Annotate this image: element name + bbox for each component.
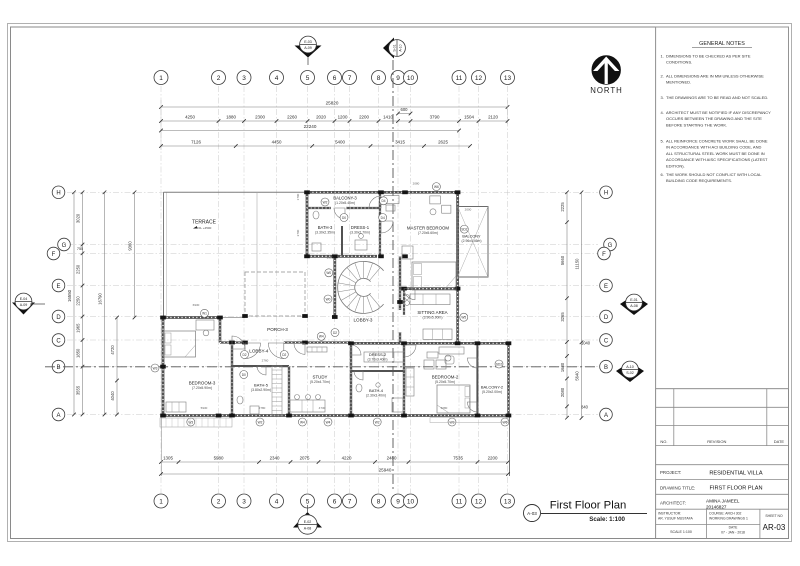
svg-text:ARCHITECT MUST BE NOTIFIED IF: ARCHITECT MUST BE NOTIFIED IF ANY DISCRE…	[666, 110, 771, 115]
tag circle W1	[201, 309, 209, 317]
grid bubble row H left	[52, 186, 65, 199]
elevation marker E-01/A-08 right	[620, 295, 648, 315]
elevation marker E-03/A-09 top	[295, 46, 322, 58]
svg-text:B: B	[604, 365, 608, 371]
door dress-2 to bath-4	[354, 371, 363, 380]
svg-text:DATE: DATE	[774, 439, 785, 444]
svg-text:E-04: E-04	[20, 297, 28, 301]
sitting area sofa set upper	[410, 294, 450, 305]
wall bedroom-3 / lobby-4 divider	[231, 345, 233, 416]
grid bubble column 9 top	[391, 71, 405, 85]
master bedroom bed	[412, 262, 456, 290]
svg-text:1305: 1305	[163, 455, 173, 460]
dimension line column segments row	[159, 119, 509, 123]
grid bubble column 8 bottom	[372, 494, 386, 508]
study desks and chairs	[290, 400, 325, 412]
svg-text:G: G	[62, 243, 67, 249]
svg-text:A: A	[604, 413, 608, 419]
section marker A-10/S-02 right	[616, 362, 644, 382]
svg-text:1504: 1504	[464, 114, 474, 119]
dimension line bottom segments	[159, 460, 510, 464]
door D4 balcony-3 to master bedroom	[369, 196, 381, 208]
svg-text:1: 1	[159, 75, 163, 82]
svg-text:2300: 2300	[255, 114, 265, 119]
dimension line right row segments	[565, 191, 569, 420]
grid bubble row D right	[600, 310, 613, 323]
svg-text:W2: W2	[375, 420, 380, 424]
title block bottom grid	[656, 509, 760, 538]
section marker S-01/A-10 top	[383, 38, 394, 59]
revision table grid	[656, 389, 789, 446]
svg-text:13: 13	[504, 499, 512, 506]
dimension line inner segments 7126/4450/5400/3415/2625	[159, 144, 472, 148]
svg-text:(5.20x2.00m): (5.20x2.00m)	[482, 390, 502, 394]
grid bubble row B right	[600, 360, 613, 373]
grid bubble column 6 bottom	[328, 494, 342, 508]
svg-text:7: 7	[348, 499, 352, 506]
svg-text:INSTRUCTOR:: INSTRUCTOR:	[658, 512, 681, 516]
svg-text:2075: 2075	[300, 455, 310, 460]
svg-text:5: 5	[306, 499, 310, 506]
svg-text:22240: 22240	[304, 124, 317, 129]
svg-text:BUILDING CODE REQUIREMENTS.: BUILDING CODE REQUIREMENTS.	[666, 178, 732, 183]
svg-text:STUDY: STUDY	[313, 375, 328, 380]
wall master bedroom right exterior	[456, 192, 459, 288]
svg-text:ARCHITECT:: ARCHITECT:	[660, 501, 686, 506]
svg-text:1880: 1880	[226, 114, 236, 119]
svg-text:DRESS-1: DRESS-1	[351, 225, 370, 230]
door lobby-3 to dress-2	[351, 345, 361, 355]
svg-text:6930: 6930	[193, 303, 200, 307]
svg-text:BALCONY-3: BALCONY-3	[333, 196, 357, 201]
wall master bedroom bottom	[404, 287, 458, 290]
bath-4 fixtures	[356, 384, 362, 392]
wall bedroom-3 right upper	[219, 318, 222, 343]
tag circle SD2	[495, 360, 503, 368]
svg-text:(3.80x2.90m): (3.80x2.90m)	[251, 388, 271, 392]
svg-text:4720: 4720	[110, 345, 115, 355]
title block left border	[655, 27, 657, 539]
svg-text:OCCURS BETWEEN THE DRAWING: OCCURS BETWEEN THE DRAWING AND THE SITE	[666, 116, 762, 121]
tag circle D0	[340, 214, 348, 222]
grid bubble row G left	[58, 238, 71, 251]
grid bubble column 4 top	[270, 71, 284, 85]
tag circle W3	[448, 418, 456, 426]
svg-text:(7.20x5.60m): (7.20x5.60m)	[418, 231, 438, 235]
grid bubble column 7 bottom	[343, 494, 357, 508]
svg-text:AMINA JAMEEL: AMINA JAMEEL	[706, 498, 740, 503]
wall lobby-3 right lower	[399, 332, 401, 343]
svg-text:FFL +4500: FFL +4500	[197, 226, 212, 230]
svg-text:7535: 7535	[453, 455, 463, 460]
svg-text:D: D	[56, 315, 61, 321]
svg-text:3415: 3415	[395, 139, 405, 144]
svg-text:W3: W3	[188, 420, 193, 424]
grid bubble column 12 bottom	[472, 494, 486, 508]
svg-text:C: C	[56, 338, 61, 344]
svg-text:2080: 2080	[560, 387, 565, 397]
svg-text:4: 4	[275, 75, 279, 82]
tag circle W4	[324, 418, 332, 426]
grid bubble column 13 bottom	[501, 494, 515, 508]
door D4 dress-1 to master bedroom	[381, 221, 393, 233]
svg-text:S-02: S-02	[626, 371, 634, 375]
svg-text:IN ACCORDANCE WITH ACI BUI: IN ACCORDANCE WITH ACI BUILDING CODE, AN…	[666, 145, 761, 150]
grid bubble column 4 bottom	[270, 494, 284, 508]
dimension line right 11150/5640	[580, 191, 584, 420]
svg-text:2225: 2225	[560, 202, 565, 212]
svg-text:25940: 25940	[379, 468, 392, 473]
svg-text:W4: W4	[326, 420, 331, 424]
wall bottom wing top (dress-2 to balcony-2)	[352, 342, 509, 345]
svg-text:D4: D4	[381, 199, 385, 203]
wall lobby-3 right upper	[399, 256, 401, 310]
svg-text:E-02: E-02	[304, 520, 312, 524]
grid bubble row D left	[52, 310, 65, 323]
svg-text:BATH-4: BATH-4	[369, 388, 384, 393]
grid bubble column 12 top	[472, 71, 486, 85]
svg-text:2625: 2625	[438, 139, 448, 144]
svg-text:2250: 2250	[76, 264, 81, 274]
wall sitting area right exterior	[456, 289, 459, 344]
svg-text:2: 2	[217, 75, 221, 82]
svg-text:6: 6	[333, 499, 337, 506]
svg-text:07 - JAN - 2018: 07 - JAN - 2018	[721, 531, 745, 535]
tag circle D0	[240, 371, 248, 379]
grid bubble column 9 bottom	[391, 494, 405, 508]
grid bubble column 10 top	[404, 71, 418, 85]
svg-text:5080: 5080	[441, 406, 448, 410]
wall dress-2 / bath-4 divider	[351, 370, 404, 372]
grid bubble row E right	[600, 279, 613, 292]
balcony-1 outline with cross bracing	[458, 207, 488, 278]
grid bubble column 3 bottom	[237, 494, 251, 508]
grid bubble row H right	[600, 186, 613, 199]
svg-text:3020: 3020	[76, 213, 81, 223]
svg-text:SCALE 1:100: SCALE 1:100	[670, 530, 692, 534]
general notes text	[661, 54, 772, 184]
grid bubble row A right	[600, 408, 613, 421]
wall study right / dress-2 left	[350, 343, 352, 415]
svg-text:D0: D0	[242, 373, 246, 377]
grid bubble column 7 top	[343, 71, 357, 85]
tag circle W4	[317, 332, 325, 340]
svg-text:E-03: E-03	[304, 40, 312, 44]
svg-text:EDITION).: EDITION).	[666, 163, 685, 168]
grid bubble column 1 bottom	[154, 494, 168, 508]
dimension line left 16790	[103, 191, 107, 417]
svg-text:(5.20x5.70m): (5.20x5.70m)	[435, 380, 455, 384]
svg-text:BATH-3: BATH-3	[318, 225, 333, 230]
wall bottom exterior	[163, 414, 509, 417]
bedroom-2 desk and chair	[439, 347, 464, 354]
svg-text:W5: W5	[461, 316, 466, 320]
interior small dimension labels	[193, 182, 472, 411]
svg-text:1950: 1950	[327, 256, 334, 260]
sitting area sofas lower	[423, 329, 452, 339]
svg-text:D4: D4	[381, 216, 385, 220]
svg-text:W2: W2	[323, 200, 328, 204]
svg-text:2780: 2780	[259, 406, 266, 410]
svg-text:1410: 1410	[383, 114, 393, 119]
wall left exterior bedroom-3	[162, 318, 165, 416]
svg-text:ACCORDANCE WITH AISC SPECIF: ACCORDANCE WITH AISC SPECIFICATIONS (LAT…	[666, 157, 768, 162]
svg-text:5660: 5660	[560, 255, 565, 265]
svg-text:4730: 4730	[319, 406, 326, 410]
svg-text:2200: 2200	[488, 455, 498, 460]
door D0 balcony-3 to bath-3	[334, 208, 345, 219]
tag circle W6	[501, 418, 509, 426]
svg-text:W2: W2	[258, 420, 263, 424]
svg-text:D0: D0	[342, 216, 346, 220]
grid bubble column 6 top	[328, 71, 342, 85]
structural columns (black)	[160, 190, 511, 417]
svg-text:(1.20x5.40m): (1.20x5.40m)	[335, 201, 355, 205]
svg-text:1: 1	[159, 499, 163, 506]
svg-text:First Floor Plan: First Floor Plan	[550, 500, 627, 512]
svg-text:2200: 2200	[359, 114, 369, 119]
north arrow symbol	[592, 56, 620, 84]
master bedroom desk and chair	[430, 196, 441, 204]
section cut line vertical S-01	[392, 60, 394, 490]
svg-text:AR. YUSUF MUSTAFA: AR. YUSUF MUSTAFA	[658, 516, 693, 520]
svg-text:LOBBY-3: LOBBY-3	[354, 318, 373, 323]
svg-text:(3.30x2.70m): (3.30x2.70m)	[350, 231, 370, 235]
tag circle D4	[379, 214, 387, 222]
svg-text:E-01: E-01	[630, 298, 638, 302]
svg-text:4040: 4040	[110, 391, 115, 401]
svg-text:BEDROOM-2: BEDROOM-2	[432, 375, 459, 380]
svg-text:11: 11	[456, 75, 463, 82]
svg-text:F: F	[52, 252, 56, 258]
grid bubble row E left	[52, 279, 65, 292]
svg-text:2000: 2000	[465, 208, 472, 212]
svg-text:1.: 1.	[661, 54, 664, 59]
svg-text:2340: 2340	[270, 455, 280, 460]
svg-text:MASTER BEDROOM: MASTER BEDROOM	[407, 226, 450, 231]
master bedroom tv unit	[402, 246, 413, 259]
grid bubble row C left	[52, 334, 65, 347]
door bedroom-2 to balcony-2 upper	[467, 358, 477, 368]
door lobby to bedroom-2	[404, 345, 416, 357]
svg-text:1700: 1700	[296, 193, 300, 200]
bedroom-3 bed	[164, 331, 196, 357]
step strip below bedroom-3	[160, 418, 232, 427]
svg-text:5400: 5400	[335, 139, 345, 144]
svg-text:TERRACE: TERRACE	[192, 220, 217, 226]
svg-text:W0: W0	[326, 271, 331, 275]
wall bath-3 dress-1 bottom	[307, 255, 377, 258]
bedroom-2 bed	[437, 385, 470, 413]
svg-text:(5.20x4.70m): (5.20x4.70m)	[310, 380, 330, 384]
svg-text:2120: 2120	[488, 114, 498, 119]
extension line left below bedroom-3	[161, 416, 163, 476]
svg-text:D2: D2	[282, 353, 286, 357]
wall balcony-3 / bath-dress divider left part	[307, 207, 331, 209]
svg-text:2260: 2260	[287, 114, 297, 119]
svg-text:MENTIONED.: MENTIONED.	[666, 80, 691, 85]
svg-text:4450: 4450	[272, 139, 282, 144]
svg-text:1200: 1200	[338, 114, 348, 119]
bedroom-3 desk and chair	[196, 320, 214, 330]
svg-text:(7.20x5.90m): (7.20x5.90m)	[192, 386, 212, 390]
svg-text:SD2: SD2	[496, 362, 502, 366]
svg-text:11150: 11150	[575, 258, 580, 270]
tag circle W3	[151, 364, 159, 372]
svg-text:3: 3	[242, 75, 246, 82]
svg-text:COURSE: ARCH 302: COURSE: ARCH 302	[709, 512, 742, 516]
door porch entry left leaf	[245, 343, 261, 359]
svg-text:(3.30x2.35m): (3.30x2.35m)	[315, 231, 335, 235]
svg-text:840: 840	[581, 405, 589, 410]
wall porch south segment east	[284, 341, 351, 343]
svg-text:5.: 5.	[661, 139, 664, 144]
general notes box	[656, 27, 789, 389]
svg-text:ALL STRUCTURAL STEEL WORK: ALL STRUCTURAL STEEL WORK MUST BE DONE I…	[666, 151, 765, 156]
svg-text:5: 5	[306, 75, 310, 82]
svg-text:SITTING AREA: SITTING AREA	[417, 310, 447, 315]
wall bath-3 left exterior	[306, 192, 309, 256]
svg-text:4.: 4.	[661, 110, 664, 115]
door lobby-4 to bedroom-3	[232, 336, 245, 349]
spiral staircase in lobby-3	[338, 261, 384, 313]
tag circle W2	[256, 418, 264, 426]
wall porch south segment west	[220, 341, 245, 343]
svg-text:E: E	[56, 284, 60, 290]
grid bubble row A left	[52, 408, 65, 421]
svg-text:4250: 4250	[185, 114, 195, 119]
svg-text:W6: W6	[434, 185, 439, 189]
svg-text:A-08: A-08	[630, 304, 638, 308]
svg-text:13: 13	[504, 75, 512, 82]
svg-text:W4: W4	[319, 335, 324, 339]
door porch entry right leaf	[268, 343, 284, 359]
svg-text:4: 4	[275, 499, 279, 506]
svg-text:BEDROOM-3: BEDROOM-3	[189, 381, 216, 386]
tag circle W3	[187, 418, 195, 426]
svg-text:(2.30x3.40m): (2.30x3.40m)	[366, 394, 386, 398]
bath-5 fixtures	[237, 396, 243, 404]
dress-2 wardrobe	[364, 352, 404, 362]
svg-text:3790: 3790	[430, 114, 440, 119]
dimension line left total 16550	[72, 191, 76, 417]
tag circle W2	[321, 198, 329, 206]
wall balcony-3 / dress-1 divider right part	[346, 207, 380, 209]
svg-text:12: 12	[475, 75, 483, 82]
tag circle W2	[373, 418, 381, 426]
svg-text:10: 10	[407, 499, 415, 506]
wall bath-3 / dress-1 divider	[341, 226, 343, 256]
wall lobby-3 left	[333, 256, 336, 317]
dimension mini 600 between col 9-10	[398, 113, 411, 115]
svg-text:BALCONY: BALCONY	[462, 235, 481, 239]
svg-text:A-08: A-08	[304, 527, 312, 531]
svg-text:CONDITIONS.: CONDITIONS.	[666, 60, 692, 65]
service staircase next to bath-5	[272, 366, 282, 416]
tag circle W4	[298, 418, 306, 426]
grid bubble row B left	[52, 360, 65, 373]
strip below bedroom-2	[430, 418, 508, 423]
svg-text:DRESS-2: DRESS-2	[369, 352, 387, 357]
svg-text:AR-03: AR-03	[763, 523, 786, 532]
svg-text:2.: 2.	[661, 74, 664, 79]
grid column lines 1-13 (dash-dot)	[161, 86, 508, 493]
dimension line left 4720/4040	[115, 316, 119, 417]
elevation marker E-02/A-08 bottom	[293, 512, 322, 528]
dimension line left row segments	[81, 191, 85, 417]
section cut line horizontal S-02	[45, 366, 597, 368]
svg-text:4220: 4220	[342, 455, 352, 460]
svg-text:3: 3	[242, 499, 246, 506]
svg-text:D2: D2	[333, 331, 337, 335]
wall study left	[288, 366, 290, 416]
svg-text:GENERAL NOTES: GENERAL NOTES	[699, 41, 745, 47]
grid bubble row F left	[47, 247, 60, 260]
svg-text:5980: 5980	[214, 455, 224, 460]
svg-text:16550: 16550	[67, 289, 72, 302]
svg-text:16790: 16790	[98, 293, 103, 305]
svg-text:5930: 5930	[201, 406, 208, 410]
dimension line total 25820	[159, 100, 509, 150]
svg-text:A-09: A-09	[20, 303, 28, 307]
svg-text:5640: 5640	[575, 371, 580, 381]
svg-text:11: 11	[456, 499, 463, 506]
svg-text:C: C	[604, 338, 609, 344]
extension line right of balcony-2	[509, 416, 511, 476]
wall bedroom-2 left	[403, 343, 405, 415]
tag circle D2	[241, 351, 249, 359]
svg-text:(2.96x4.46m): (2.96x4.46m)	[462, 239, 482, 243]
svg-text:SHEET NO: SHEET NO	[765, 514, 783, 518]
grid bubble column 1 top	[154, 71, 168, 85]
svg-text:7: 7	[348, 75, 352, 82]
svg-text:A-10: A-10	[626, 365, 634, 369]
tag circle D2	[280, 351, 288, 359]
terrace outline	[163, 192, 165, 317]
grid bubble column 8 top	[372, 71, 386, 85]
wall dress-1 right / master bedroom left	[379, 192, 381, 256]
bedroom-3 dresser	[166, 402, 186, 412]
svg-text:W1: W1	[202, 312, 207, 316]
svg-text:A-10: A-10	[399, 44, 403, 51]
svg-text:2700: 2700	[296, 229, 300, 236]
door porch to study	[294, 343, 305, 354]
svg-text:2080: 2080	[413, 182, 420, 186]
svg-text:755: 755	[77, 247, 83, 251]
svg-text:3.: 3.	[661, 95, 664, 100]
tag circle D4	[380, 197, 388, 205]
svg-text:G: G	[608, 243, 613, 249]
svg-text:1965: 1965	[76, 323, 81, 333]
tag circle D2	[331, 329, 339, 337]
svg-text:A-09: A-09	[304, 46, 312, 50]
svg-text:RESIDENTIAL VILLA: RESIDENTIAL VILLA	[709, 470, 763, 476]
grid bubble column 13 top	[501, 71, 515, 85]
grid bubble column 2 bottom	[212, 494, 226, 508]
svg-text:12: 12	[475, 499, 483, 506]
svg-text:Scale: 1:100: Scale: 1:100	[589, 516, 625, 523]
svg-text:7126: 7126	[191, 139, 201, 144]
study window seat	[307, 347, 327, 352]
svg-text:B: B	[56, 365, 60, 371]
svg-text:9: 9	[396, 499, 400, 506]
bath-3 fixtures	[313, 211, 319, 219]
tag circle W5	[460, 313, 468, 321]
tag circle W0	[324, 295, 332, 303]
svg-text:W3: W3	[153, 366, 158, 370]
svg-text:H: H	[604, 191, 608, 197]
svg-text:8: 8	[377, 75, 381, 82]
